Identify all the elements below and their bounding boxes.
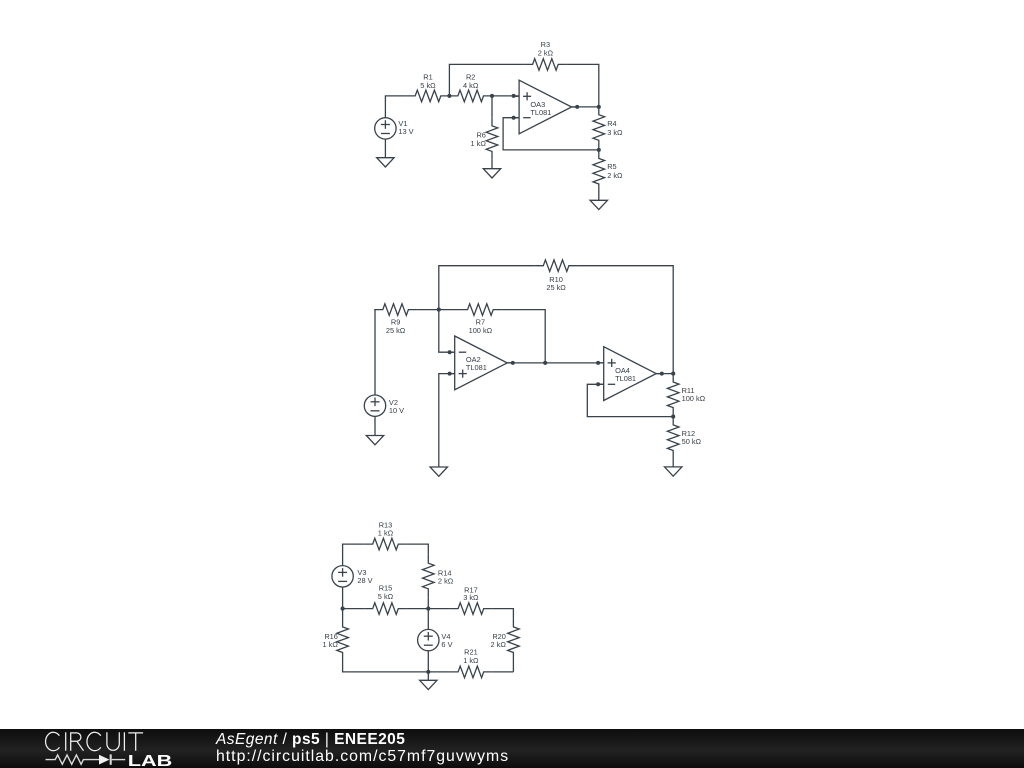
node C output junction	[597, 105, 601, 109]
svg-text:LAB: LAB	[128, 753, 172, 768]
resistor R16	[337, 618, 349, 661]
label OA2 TL081	[466, 355, 487, 372]
wire V1 top to R1	[385, 96, 406, 118]
wire OA3 inverting input feedback	[503, 118, 599, 150]
wire OA3 output	[572, 106, 599, 108]
wire R14 to node J	[427, 597, 429, 608]
resistor R11	[667, 374, 679, 417]
op-amp OA4	[598, 347, 662, 401]
svg-text:1 kΩ: 1 kΩ	[323, 640, 339, 649]
label R11 100 kOhm	[682, 386, 706, 403]
wire R13 to R14	[407, 544, 429, 555]
label R13 1 kOhm	[378, 521, 394, 538]
label R4 3 kOhm	[607, 119, 623, 137]
wire R10 to output node F	[577, 266, 673, 374]
svg-text:100 kΩ: 100 kΩ	[469, 326, 493, 335]
wire node I to R15	[343, 608, 365, 610]
footer title text	[216, 731, 405, 749]
wire R5 to ground	[598, 193, 600, 201]
label R3 2 kOhm	[538, 40, 554, 57]
label R21 1 kOhm	[463, 648, 479, 665]
logo letter I	[65, 733, 67, 751]
footer bar	[0, 729, 1024, 768]
wire R7 to OA2 output rail	[502, 310, 546, 363]
svg-text:100 kΩ: 100 kΩ	[682, 394, 706, 403]
label R14 2 kOhm	[438, 569, 454, 586]
svg-text:28 V: 28 V	[357, 576, 372, 585]
wire V3 to node I	[342, 587, 344, 609]
svg-text:R4: R4	[607, 119, 616, 128]
label R15 5 kOhm	[378, 584, 394, 601]
svg-text:10 V: 10 V	[389, 406, 404, 415]
node B junction R2/R6/op-amp	[490, 94, 494, 98]
label R5 2 kOhm	[607, 162, 623, 180]
wire V2 top to R9	[373, 310, 376, 395]
terminal dot OA3 + input	[512, 94, 516, 98]
label R1 5 kOhm	[420, 73, 436, 90]
svg-text:4 kΩ: 4 kΩ	[463, 81, 479, 90]
node J junction R14/R15/R17/V4	[426, 607, 430, 611]
voltage source V3	[332, 566, 353, 587]
node E junction R9/R7/R10/OA2	[437, 308, 441, 312]
svg-text:2 kΩ: 2 kΩ	[607, 171, 623, 180]
label V1 13 V	[398, 119, 413, 136]
logo letter U	[107, 733, 119, 751]
footer url text	[216, 748, 509, 766]
label V2 10 V	[389, 398, 404, 415]
label OA3 TL081	[530, 100, 551, 117]
node A junction R1/R2/R3	[447, 94, 451, 98]
CircuitLab logo	[0, 729, 200, 768]
voltage source V2	[364, 395, 385, 416]
wire R12 to ground	[672, 459, 674, 467]
wire node A up to R3	[449, 64, 524, 96]
svg-text:TL081: TL081	[466, 363, 487, 372]
svg-text:25 kΩ: 25 kΩ	[546, 283, 566, 292]
wire node E up to R10	[439, 266, 535, 310]
label R7 100 kOhm	[469, 318, 493, 335]
svg-text:TL081: TL081	[615, 374, 636, 383]
resistor R14	[423, 555, 435, 598]
wire V3 top to R13	[343, 544, 365, 566]
node G junction R7/output rail	[543, 361, 547, 365]
svg-text:13 V: 13 V	[398, 127, 413, 136]
resistor R5	[593, 150, 605, 193]
label R9 25 kOhm	[386, 318, 406, 335]
svg-text:TL081: TL081	[530, 108, 551, 117]
svg-text:2 kΩ: 2 kΩ	[438, 577, 454, 586]
svg-text:25 kΩ: 25 kΩ	[386, 326, 406, 335]
logo letter C	[87, 733, 101, 751]
resistor R2	[449, 90, 492, 102]
svg-text:5 kΩ: 5 kΩ	[378, 592, 394, 601]
label R20 2 kOhm	[491, 632, 507, 649]
resistor R12	[667, 416, 679, 459]
label R12 50 kOhm	[682, 429, 702, 446]
svg-text:2 kΩ: 2 kΩ	[538, 49, 554, 58]
resistor R6	[486, 117, 498, 160]
ground under V4	[420, 680, 437, 689]
label V3 28 V	[357, 568, 372, 585]
ground under OA2 + input	[430, 467, 447, 476]
svg-text:1 kΩ: 1 kΩ	[378, 529, 394, 538]
logo letter R	[71, 733, 84, 751]
label R16 1 kOhm	[323, 632, 339, 649]
op-amp OA2	[449, 336, 513, 390]
wire R15 to node J	[407, 608, 429, 610]
terminal dot OA2 output	[511, 361, 515, 365]
wire node J to R17	[428, 608, 449, 610]
wire R17 to R20	[492, 609, 513, 619]
wire V2 to ground	[374, 416, 376, 435]
svg-text:5 kΩ: 5 kΩ	[420, 81, 436, 90]
logo letter I	[123, 733, 125, 751]
voltage source V1	[375, 118, 396, 139]
svg-text:3 kΩ: 3 kΩ	[463, 593, 479, 602]
ground under V2	[366, 436, 383, 445]
resistor R15	[364, 603, 407, 615]
svg-text:1 kΩ: 1 kΩ	[471, 139, 487, 148]
resistor R1	[407, 90, 450, 102]
wire node B to op-amp noninverting input	[492, 95, 519, 97]
label OA4 TL081	[615, 366, 636, 383]
wire R9 to node E	[417, 309, 439, 311]
wire V1 to ground	[384, 139, 386, 158]
wire node K to R21	[428, 671, 449, 673]
resistor R7	[459, 304, 502, 316]
label R17 3 kOhm	[463, 585, 479, 602]
wire node K to ground	[427, 672, 429, 680]
resistor R17	[450, 603, 493, 615]
terminal dot OA4 - input	[596, 382, 600, 386]
logo resistor-diode glyph	[46, 755, 126, 765]
resistor R3	[524, 59, 567, 71]
node K junction V4/bottom rail/ground	[426, 670, 430, 674]
wire node E to R7	[439, 309, 459, 311]
label R2 4 kOhm	[463, 73, 479, 90]
terminal dot OA2 - input	[448, 350, 452, 354]
resistor R10	[535, 260, 578, 272]
svg-text:1 kΩ: 1 kΩ	[463, 656, 479, 665]
terminal dot OA3 - input	[512, 116, 516, 120]
ground under R12	[665, 467, 682, 476]
svg-text:50 kΩ: 50 kΩ	[682, 437, 702, 446]
wire R16 to bottom rail	[343, 661, 429, 672]
voltage source V4	[418, 629, 439, 650]
label V4 6 V	[441, 632, 452, 649]
wire R6 to ground	[491, 160, 493, 169]
resistor R20	[508, 618, 520, 661]
node D junction R4/R5/feedback	[597, 148, 601, 152]
node F junction OA4 output/R10/R11	[671, 372, 675, 376]
wire node I down to R16	[342, 609, 344, 619]
terminal dot OA3 output	[575, 105, 579, 109]
resistor R9	[374, 304, 417, 316]
logo letter T	[128, 733, 143, 751]
wire R21 to R20 bottom	[492, 671, 513, 673]
node H junction R11/R12/feedback	[671, 415, 675, 419]
ground under V1	[377, 158, 394, 167]
wire R3 to output node	[567, 64, 599, 107]
wire OA2 output to OA4 + input	[507, 362, 604, 364]
wire V4 to bottom rail	[427, 651, 429, 672]
svg-text:3 kΩ: 3 kΩ	[607, 128, 623, 137]
resistor R21	[450, 666, 493, 678]
wire node J down to V4	[427, 609, 429, 630]
wire R20 to bottom rail	[512, 661, 514, 672]
ground under R5	[590, 200, 607, 209]
wire node B down to R6	[491, 96, 493, 117]
terminal dot OA4 output	[660, 372, 664, 376]
label R10 25 kOhm	[546, 275, 566, 292]
svg-text:R5: R5	[607, 162, 616, 171]
node I junction V3/R15/R16	[341, 607, 345, 611]
terminal dot OA2 + input	[448, 372, 452, 376]
ground under R6	[483, 169, 500, 178]
op-amp OA3	[514, 80, 578, 134]
resistor R13	[364, 538, 407, 550]
wire node E down to OA2 inverting input	[439, 310, 455, 353]
svg-text:6 V: 6 V	[441, 640, 452, 649]
wire OA4 inverting input feedback	[587, 384, 673, 416]
wire OA4 output to node F	[656, 373, 673, 375]
svg-text:2 kΩ: 2 kΩ	[491, 640, 507, 649]
logo letter C	[46, 733, 60, 751]
resistor R4	[593, 106, 605, 149]
wire OA2 noninverting input to ground	[439, 374, 455, 467]
label R6 1 kOhm	[471, 131, 487, 148]
terminal dot OA4 + input	[596, 361, 600, 365]
